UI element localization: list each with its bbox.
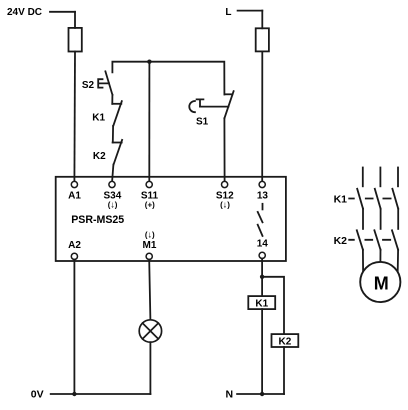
svg-text:PSR-MS25: PSR-MS25 — [71, 214, 124, 226]
terminal M1 — [146, 253, 152, 259]
contact K1 pole 3 blade — [392, 189, 398, 209]
svg-text:K2: K2 — [279, 337, 292, 348]
contact K2 pole 1 blade — [357, 230, 363, 249]
wire L rail upper segment — [261, 11, 263, 29]
svg-text:M: M — [374, 273, 389, 293]
wire K2 to terminal S34 — [112, 165, 113, 182]
fuse F1 (24V rail) — [69, 28, 82, 52]
contact K1 pole 1 blade — [357, 189, 363, 209]
internal safety contact 13-14 second blade — [258, 225, 263, 236]
svg-text:0V: 0V — [31, 388, 44, 400]
relay coil K1 — [248, 296, 275, 309]
wire phase L1 to motor — [362, 250, 364, 272]
wire lamp to 0V — [149, 342, 151, 394]
wire phase L3 mid — [397, 209, 399, 229]
relay coil K2 — [272, 334, 299, 347]
wire L horizontal feed — [238, 10, 263, 12]
terminal 14 — [259, 252, 265, 258]
wire S1 to terminal S12 — [223, 118, 225, 181]
wire phase L1 top stub — [362, 168, 364, 187]
emergency stop S1 contact fixed bar — [224, 93, 232, 95]
wire 24V rail to terminal A1 — [73, 52, 76, 182]
switch S2 blade — [105, 71, 112, 94]
svg-text:(↓): (↓) — [220, 199, 230, 209]
wire L rail to terminal 13 — [261, 51, 263, 181]
contact K1 (NC) fixed bar — [112, 103, 121, 105]
contact K1 (NC) blade — [113, 101, 122, 126]
indicator lamp H1 — [139, 320, 161, 342]
emergency stop S1 blade — [224, 91, 233, 118]
switch S2 manual actuator — [98, 79, 109, 87]
wire A2 to 0V — [73, 260, 75, 394]
terminal S11 — [146, 181, 152, 187]
wire K1 coil to N — [261, 309, 263, 394]
svg-text:K1: K1 — [334, 193, 348, 205]
wire phase L3 top stub — [397, 168, 399, 187]
svg-text:(↓): (↓) — [108, 199, 118, 209]
svg-text:S1: S1 — [196, 117, 209, 128]
svg-text:13: 13 — [257, 191, 269, 202]
junction A2 / 0V — [72, 392, 76, 396]
mechanical link K1 dashes — [349, 198, 390, 200]
svg-text:K1: K1 — [255, 299, 268, 310]
wire S2 to K1 — [111, 95, 113, 104]
junction S11 top — [147, 60, 151, 64]
svg-text:(↓): (↓) — [145, 230, 155, 240]
wire K2 coil to N — [283, 347, 285, 394]
motor M — [360, 262, 400, 302]
junction 14 branch — [260, 275, 264, 279]
fuse F2 (L rail) — [256, 28, 269, 51]
svg-text:N: N — [226, 388, 234, 400]
svg-text:(+): (+) — [145, 200, 155, 209]
svg-text:M1: M1 — [143, 240, 157, 251]
terminal S12 — [222, 181, 228, 187]
contact K1 pole 2 blade — [375, 189, 381, 209]
svg-text:K2: K2 — [93, 151, 106, 162]
wire phase L1 mid — [362, 209, 364, 229]
internal safety contact 13-14 first blade — [258, 212, 263, 222]
wire 24V DC horizontal feed — [50, 11, 75, 13]
junction K1 / N — [260, 392, 264, 396]
svg-text:S2: S2 — [82, 80, 95, 91]
contact K2 pole 3 blade — [392, 230, 398, 249]
terminal A1 — [71, 181, 77, 187]
terminal 13 — [259, 181, 265, 187]
contact K2 pole 2 blade — [374, 230, 380, 249]
emergency stop S1 actuator link — [200, 106, 228, 108]
svg-text:A2: A2 — [68, 240, 81, 251]
wire M1 to lamp — [149, 260, 150, 320]
wire S11 vertical — [148, 62, 150, 182]
svg-text:A1: A1 — [68, 191, 81, 202]
svg-text:K1: K1 — [92, 112, 105, 123]
terminal A2 — [71, 253, 77, 259]
contact K2 (NC) blade — [114, 140, 123, 165]
internal safety contact 13-14 upper stub — [262, 204, 264, 210]
wire branch to K2 coil — [262, 277, 284, 334]
wire K1 to K2 — [112, 126, 114, 143]
svg-text:K2: K2 — [334, 235, 348, 247]
wire 0V rail — [51, 393, 151, 395]
mechanical link K2 dashes — [349, 239, 390, 241]
svg-text:L: L — [225, 7, 231, 18]
emergency stop S1 mushroom head — [189, 99, 203, 112]
wire 14 to K1 coil — [261, 259, 263, 297]
wire phase L2 to motor — [379, 250, 381, 263]
contact K2 (NC) fixed bar — [113, 142, 122, 144]
wire phase L2 mid — [380, 209, 382, 229]
wire sensor supply top horizontal — [112, 62, 224, 95]
wire 24V rail upper segment — [74, 12, 76, 28]
svg-text:14: 14 — [257, 239, 269, 250]
terminal S34 — [109, 181, 115, 187]
wire phase L2 top stub — [379, 168, 381, 187]
svg-text:24V DC: 24V DC — [7, 7, 42, 18]
wire N rail — [237, 393, 284, 395]
relay module PSR-MS25 body — [56, 177, 286, 261]
wire phase L3 to motor — [397, 250, 399, 272]
